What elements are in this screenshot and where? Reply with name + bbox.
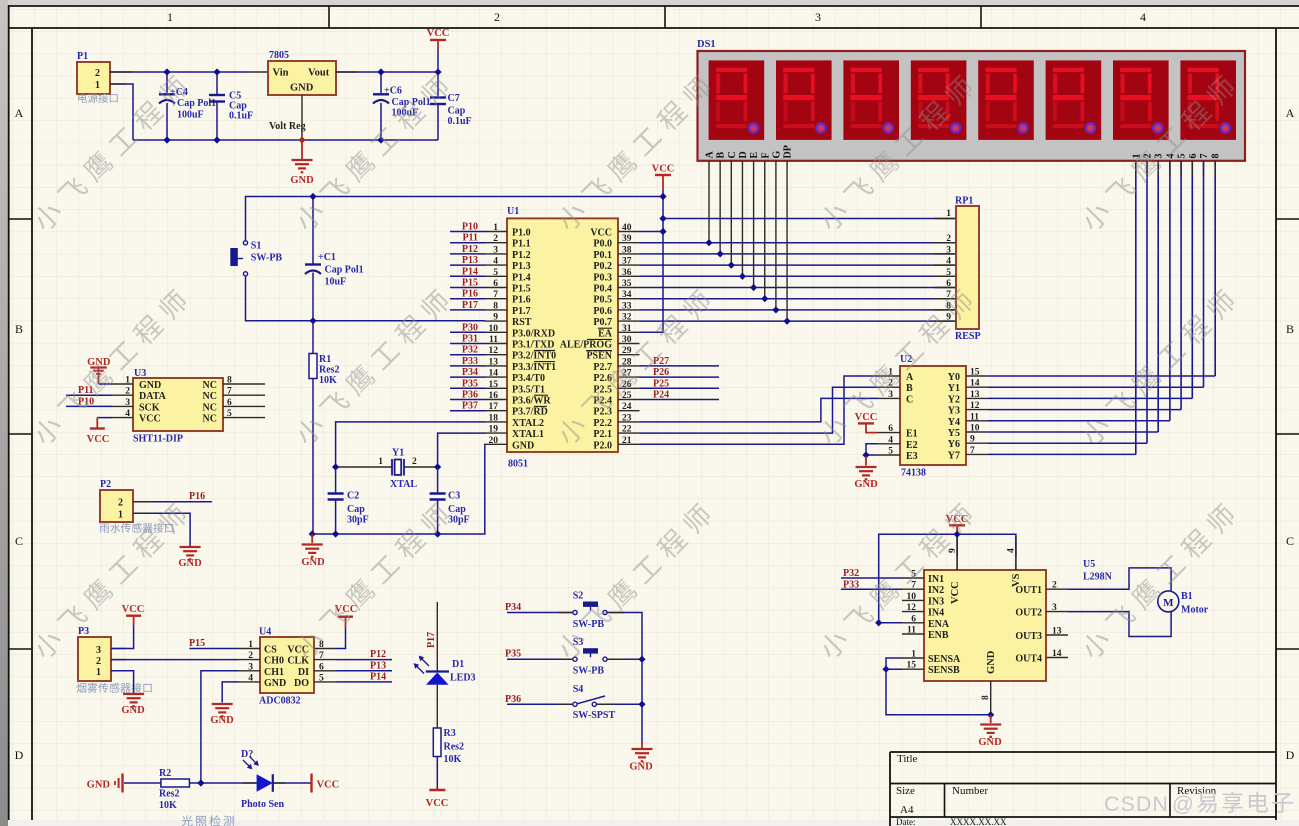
wire net P16 [450,298,485,300]
U4 pin 3 stub [238,670,260,672]
display digit 6 [1046,60,1102,139]
U1 pin 23 stub [618,421,640,423]
svg-text:5: 5 [319,673,324,683]
wire display segment pin DP [786,161,788,321]
svg-text:CH1: CH1 [264,667,284,678]
connector P2 [100,490,133,522]
svg-text:NC: NC [203,391,217,402]
svg-text:P26: P26 [653,367,669,378]
svg-text:30pF: 30pF [347,515,369,526]
svg-text:XTAL2: XTAL2 [512,418,544,429]
svg-text:SW-PB: SW-PB [573,666,605,677]
title block [890,751,1276,753]
inner border top [8,27,1299,29]
wire VCC column to EA [640,190,664,332]
U3 pin VCC stub [112,417,134,419]
svg-text:S4: S4 [573,684,584,695]
svg-text:IN1: IN1 [928,574,944,585]
svg-text:19: 19 [489,425,499,435]
wire net P0.5 row [640,298,957,300]
svg-text:9: 9 [946,313,951,323]
svg-text:VCC: VCC [427,28,450,39]
U4 pin 8 stub [314,648,336,650]
svg-text:P1.3: P1.3 [512,261,531,272]
U5 pin OUT1 stub [1046,588,1068,590]
svg-text:P1.5: P1.5 [512,284,531,295]
svg-text:P37: P37 [462,401,478,412]
app gray strip bottom [8,820,1299,826]
svg-text:12: 12 [907,603,917,613]
svg-text:P2.5: P2.5 [593,384,612,395]
svg-text:SW-SPST: SW-SPST [573,710,616,721]
svg-text:10: 10 [489,324,499,334]
wire display digit select 1 [1135,161,1137,455]
svg-text:6: 6 [888,424,893,434]
svg-text:1: 1 [248,640,253,650]
zone divider right at y=649 [1276,648,1299,650]
svg-text:+C6: +C6 [384,86,402,97]
svg-text:2: 2 [125,387,130,397]
app gray strip left [0,0,8,826]
wire display segment pin E [753,161,755,288]
svg-text:R3: R3 [444,728,456,739]
svg-text:P0.3: P0.3 [593,272,612,283]
zone divider right at y=434 [1276,433,1299,435]
svg-text:D: D [15,748,24,762]
U2 pin E2 stub [878,443,901,445]
svg-text:P0.4: P0.4 [593,284,612,295]
svg-text:21: 21 [622,436,632,446]
U4 pin 4 stub [238,681,260,683]
crystal Y1 [336,466,392,468]
svg-text:LED3: LED3 [450,673,476,684]
svg-text:P16: P16 [462,289,478,300]
resistor R2 [161,779,190,787]
svg-text:9: 9 [970,435,975,445]
sensor U3 SHT11-DIP body [133,378,223,431]
resistor R3 [433,728,441,757]
wire net P14 [450,275,485,277]
svg-text:B: B [906,383,913,394]
wire net P25 [640,387,720,389]
svg-text:15: 15 [970,368,980,378]
svg-text:B1: B1 [1181,591,1193,602]
svg-text:R2: R2 [159,768,171,779]
wire display digit select 5 [1180,161,1182,410]
U4 pin 5 stub [314,681,336,683]
wire photodiode to VCC [273,782,311,784]
wire net P35 [507,658,573,660]
wire U4 VCC pin to VCC [336,627,346,649]
svg-text:Size: Size [896,785,915,797]
svg-text:P32: P32 [462,345,478,356]
svg-text:GND: GND [978,737,1002,748]
U3 pin GND stub [112,383,134,385]
svg-text:P25: P25 [653,378,669,389]
U1 pin 1 stub [485,231,508,233]
svg-text:SW-PB: SW-PB [251,253,283,264]
svg-text:P15: P15 [462,278,478,289]
wire display segment pin C [730,161,732,265]
svg-text:18: 18 [489,413,499,423]
switch pin stubs [558,612,572,614]
svg-text:15: 15 [907,661,917,671]
svg-text:P32: P32 [843,568,859,579]
wire net P33 [450,365,485,367]
power port VCC top [437,40,439,50]
svg-text:Y5: Y5 [948,428,960,439]
svg-text:Title: Title [897,753,918,765]
svg-text:P14: P14 [370,672,386,683]
svg-text:DS1: DS1 [697,39,716,50]
svg-text:P3.6/WR: P3.6/WR [512,396,551,407]
svg-text:OUT2: OUT2 [1015,608,1042,619]
svg-text:2: 2 [96,656,101,667]
svg-text:P0.1: P0.1 [593,250,612,261]
display digit 7 [1113,60,1169,139]
svg-text:VCC: VCC [950,581,961,604]
wire Y2 to display [988,397,1192,399]
display digit 1 [709,60,765,139]
svg-text:2: 2 [493,234,498,244]
U3 pin NC stub 7 [223,394,265,396]
display digit 4 [911,60,967,139]
svg-text:3: 3 [493,245,498,255]
svg-text:10uF: 10uF [325,277,347,288]
capacitor C3 [437,467,439,494]
wire P2.1 to U2 B [640,387,879,433]
resistor R1 [312,321,314,534]
svg-text:C: C [1286,534,1294,548]
svg-text:7: 7 [1199,154,1210,159]
U1 pin 26 stub [618,387,640,389]
U2 pin E3 stub [878,454,901,456]
wire net P31 [450,343,485,345]
svg-text:36: 36 [622,268,632,278]
svg-text:Res2: Res2 [444,742,465,753]
svg-text:Photo Sen: Photo Sen [241,799,285,810]
svg-text:DP: DP [783,145,794,158]
svg-text:CS: CS [264,645,277,656]
wire net P17 to LED D1 [436,602,438,671]
capacitor C7 [437,72,439,98]
svg-text:VCC: VCC [122,604,145,615]
svg-text:XTAL1: XTAL1 [512,429,544,440]
U1 pin 8 stub [485,309,508,311]
resistor pack RP1 [956,206,979,329]
LED D1 [426,670,449,672]
svg-text:P36: P36 [462,390,478,401]
svg-text:4: 4 [248,673,253,683]
svg-text:GND: GND [854,479,878,490]
svg-text:11: 11 [489,335,498,345]
U2 pin E1 stub [878,432,901,434]
wire net P37 [450,410,485,412]
label 烟雾传感器接口 [76,683,151,693]
svg-text:C2: C2 [347,491,359,502]
wire net P0.2 row [640,264,957,266]
svg-text:C7: C7 [448,93,460,104]
U3 pin NC stub 8 [223,383,265,385]
svg-text:Res2: Res2 [319,365,340,376]
svg-text:DI: DI [298,667,309,678]
svg-text:10K: 10K [319,375,337,386]
svg-text:VCC: VCC [317,780,340,791]
svg-text:C: C [727,151,738,158]
capacitor C5 [216,72,218,95]
svg-text:6: 6 [227,398,232,408]
ground GND under P2 [180,546,201,548]
zone divider left at y=434 [8,433,32,435]
svg-text:VCC: VCC [590,228,612,239]
wire net P0.0 row [640,242,957,244]
svg-text:F: F [760,152,771,158]
svg-text:P3.5/T1: P3.5/T1 [512,384,545,395]
svg-text:74138: 74138 [901,468,926,479]
svg-text:P2.7: P2.7 [593,362,612,373]
svg-text:GND: GND [264,678,286,689]
svg-text:DATA: DATA [139,391,167,402]
svg-text:RESP: RESP [955,331,981,342]
svg-text:40: 40 [622,223,632,233]
ground GND under XTAL [311,534,313,543]
switch S3 [573,657,577,661]
U5 pin OUT2 stub [1046,611,1068,613]
svg-text:23: 23 [622,413,632,423]
overline EA [598,327,612,329]
svg-text:2: 2 [95,68,100,79]
svg-text:30: 30 [622,335,632,345]
zone divider left at y=649 [8,648,32,650]
svg-text:R1: R1 [319,354,331,365]
U4 pin 6 stub [314,670,336,672]
wire 7805 Vout to VCC [336,71,438,73]
U1 pin 11 stub [485,343,508,345]
wire E2 E3 to ground [866,444,878,456]
svg-text:4: 4 [946,257,951,267]
overline RD [534,405,547,407]
svg-text:C: C [15,534,23,548]
svg-text:14: 14 [1052,649,1062,659]
U1 pin 39 stub [618,242,640,244]
U1 pin 28 stub [618,365,640,367]
ground GND under 7805 [301,140,303,159]
svg-text:29: 29 [622,346,632,356]
svg-text:Date:: Date: [896,817,916,826]
svg-text:Cap: Cap [448,106,466,117]
svg-text:Y2: Y2 [948,394,960,405]
svg-text:A: A [705,151,716,159]
U1 pin 6 stub [485,287,508,289]
wire D1 to R3 [436,685,438,728]
zone divider right at y=219 [1276,218,1299,220]
svg-text:P36: P36 [505,694,521,705]
svg-text:P24: P24 [653,390,669,401]
ground GND under switches [641,742,643,748]
U5 pin SENSB stub [902,668,924,670]
svg-text:Y1: Y1 [948,383,960,394]
zone divider top 2|3 [664,6,666,28]
svg-text:P10: P10 [462,222,478,233]
wire P2.0 to U2 A [640,376,879,444]
svg-text:P35: P35 [505,649,521,660]
wire S4 to rail [597,703,643,705]
U2 pin Y6 stub [966,442,988,444]
svg-text:8: 8 [1211,154,1222,159]
svg-text:3: 3 [96,645,101,656]
svg-text:U5: U5 [1083,559,1095,570]
svg-text:SHT11-DIP: SHT11-DIP [133,434,183,445]
svg-text:6: 6 [911,614,916,624]
svg-text:Y7: Y7 [948,450,960,461]
svg-text:8: 8 [319,640,324,650]
svg-text:P0.6: P0.6 [593,306,612,317]
svg-text:XTAL: XTAL [390,479,417,490]
wire Y6 to display [988,442,1147,444]
svg-text:7: 7 [911,581,916,591]
display digit 8 [1180,60,1236,139]
capacitor C2 [335,467,337,494]
wire display segment pin F [764,161,766,299]
svg-text:IN4: IN4 [928,608,944,619]
wire net P33 to IN2 [841,588,902,590]
svg-text:+C1: +C1 [318,252,336,263]
svg-text:Cap: Cap [448,504,466,515]
power port VCC below R3 [429,789,445,791]
U1 pin 3 stub [485,253,508,255]
svg-text:6: 6 [1188,154,1199,159]
svg-text:Motor: Motor [1181,605,1209,616]
U1 pin 36 stub [618,275,640,277]
svg-text:OUT4: OUT4 [1015,654,1042,665]
svg-text:38: 38 [622,245,632,255]
overline INT1 [534,361,555,363]
svg-text:A: A [1286,106,1295,120]
svg-text:VCC: VCC [139,414,161,425]
wire P2.2 to U2 C [640,398,879,422]
U5 pin 9 stub top [956,536,958,570]
display digit 2 [776,60,832,139]
U5 pin IN1 stub [902,577,924,579]
wire display digit select 7 [1203,161,1205,387]
svg-text:RST: RST [512,317,532,328]
wire XTAL2 to crystal left [336,422,485,467]
wire Y0 to display [988,375,1215,377]
svg-text:3: 3 [248,662,253,672]
wire net P0.1 row [640,253,957,255]
svg-text:GND: GND [290,175,314,186]
svg-text:S2: S2 [573,591,584,602]
svg-text:4: 4 [1140,10,1146,24]
decoder U2 74138 body [900,366,966,465]
wire net P11 [450,242,485,244]
svg-text:12: 12 [489,346,499,356]
svg-text:14: 14 [970,379,980,389]
U2 pin Y5 stub [966,431,988,433]
wire Y4 to display [988,420,1170,422]
svg-text:6: 6 [319,662,324,672]
svg-text:P3: P3 [78,626,89,637]
svg-text:GND: GND [87,780,111,791]
svg-text:@: @ [1172,792,1194,816]
svg-text:U4: U4 [259,627,271,638]
wire P3 pin2 to U4 CH0 [111,659,238,661]
U5 pin SENSA stub [902,657,924,659]
U4 pin 2 stub [238,659,260,661]
svg-text:17: 17 [489,402,499,412]
svg-text:Number: Number [952,785,988,797]
wire P3 pin1 to ground [111,671,134,693]
svg-text:IN2: IN2 [928,585,944,596]
svg-text:C: C [906,394,913,405]
svg-text:P1.0: P1.0 [512,228,531,239]
svg-text:9: 9 [493,313,498,323]
svg-text:1: 1 [125,376,130,386]
svg-text:OUT3: OUT3 [1015,631,1042,642]
svg-text:1: 1 [911,650,916,660]
svg-text:VCC: VCC [87,434,110,445]
svg-text:13: 13 [970,390,980,400]
ground GND under U2 [856,466,877,468]
power port VCC right of photodiode [310,774,312,793]
svg-text:M: M [1163,597,1174,609]
wire display digit select 6 [1191,161,1193,399]
svg-text:ALE/PROG: ALE/PROG [560,340,612,351]
svg-text:11: 11 [907,626,916,636]
svg-text:100uF: 100uF [177,110,204,121]
svg-text:10: 10 [970,424,980,434]
svg-text:D: D [738,151,749,158]
svg-text:16: 16 [489,391,499,401]
wire net P24 [640,399,720,401]
svg-text:30pF: 30pF [448,515,470,526]
svg-text:P35: P35 [462,378,478,389]
U1 pin 22 stub [618,432,640,434]
svg-text:C3: C3 [448,491,460,502]
svg-text:B: B [716,152,727,159]
wire Y1 to display [988,386,1204,388]
svg-text:5: 5 [888,447,893,457]
svg-text:10: 10 [907,592,917,602]
svg-text:P3.0/RXD: P3.0/RXD [512,328,555,339]
svg-text:7: 7 [227,387,232,397]
display digit 3 [843,60,899,139]
svg-text:A: A [15,106,24,120]
U1 pin 14 stub [485,376,508,378]
svg-text:11: 11 [970,412,979,422]
wire U1 GND pin down to ground rail [312,444,485,534]
label 光照检测 [181,815,234,826]
regulator 7805 [268,61,336,95]
U5 pin IN4 stub [902,611,924,613]
svg-text:P34: P34 [505,602,521,613]
svg-text:SCK: SCK [139,402,160,413]
svg-text:0.1uF: 0.1uF [229,111,253,122]
photodiode D? [257,774,273,792]
svg-text:GND: GND [139,380,161,391]
svg-text:0.1uF: 0.1uF [448,116,472,127]
U1 pin 5 stub [485,275,508,277]
svg-text:XXXX.XX.XX: XXXX.XX.XX [950,817,1007,826]
svg-text:P30: P30 [462,322,478,333]
U2 pin Y3 stub [966,409,988,411]
wire net P32 [450,354,485,356]
wire net P27 [640,365,720,367]
svg-text:P17: P17 [462,300,478,311]
wire net P30 [450,331,485,333]
svg-text:28: 28 [622,357,632,367]
wire XTAL1 to crystal right [438,433,485,467]
